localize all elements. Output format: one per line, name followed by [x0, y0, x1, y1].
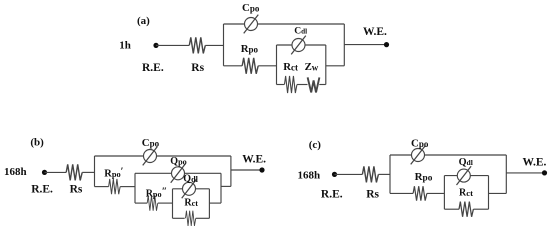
CPE Qpo (b) [171, 164, 186, 183]
wire level-2 left vertical (b) [134, 173, 136, 203]
wire inner top branch (a) [277, 44, 326, 46]
wire to W.E. (a) [344, 44, 386, 46]
wire inner bottom branch (a) [277, 84, 285, 86]
wire [297, 84, 308, 86]
wire level-3 left vertical (b) [172, 189, 174, 219]
capacitor Cdl (a) [291, 36, 306, 55]
wire inner left vertical (c) [443, 176, 445, 210]
resistor Rpo (c) [413, 186, 427, 200]
svg-text:Rpo: Rpo [415, 171, 433, 184]
svg-text:Rpo″: Rpo″ [146, 186, 167, 199]
svg-text:Qpo: Qpo [170, 156, 186, 167]
svg-text:Cpo: Cpo [411, 137, 429, 149]
wire right vertical (a) [343, 24, 345, 66]
wire Qdl branch (c) [444, 175, 488, 177]
svg-text:Cpo: Cpo [142, 137, 160, 149]
resistor Rct (a) [284, 76, 296, 93]
svg-text:Rpo: Rpo [241, 43, 259, 55]
wire left vertical (c) [389, 155, 391, 193]
resistor Rs (b) [66, 164, 82, 180]
svg-text:W.E.: W.E. [523, 156, 547, 168]
wire right vertical (c) [505, 155, 507, 193]
svg-text:Rct: Rct [459, 188, 473, 199]
node W.E. (b) [259, 167, 264, 172]
svg-text:Rs: Rs [70, 183, 83, 195]
CPE Qdl (b) [182, 179, 197, 198]
wire inner right vertical (c) [488, 176, 490, 210]
wire Rpo'' branch (b) [135, 202, 147, 204]
node R.E. (b) [42, 170, 47, 175]
wire top branch (b) [95, 155, 231, 157]
wire top branch (a) [224, 23, 345, 25]
svg-text:R.E.: R.E. [31, 183, 53, 195]
node R.E. (c) [332, 172, 337, 177]
resistor Rct (b) [185, 211, 195, 226]
capacitor Cpo (b) [143, 147, 158, 166]
resistor Rpo'' (b) [147, 196, 158, 211]
wire left vertical (a) [223, 24, 225, 66]
wire level-3 right vertical (b) [208, 189, 210, 219]
wire top branch (c) [390, 154, 506, 156]
svg-text:Qdl: Qdl [459, 157, 473, 168]
resistor Rs (a) [189, 37, 205, 53]
node W.E. (c) [542, 170, 547, 175]
wire Rpo branch (c) [390, 192, 413, 194]
wire to W.E. (b) [231, 169, 262, 171]
wire bottom branch (a) [224, 65, 243, 67]
svg-text:W.E.: W.E. [363, 26, 387, 38]
svg-text:W.E.: W.E. [242, 154, 266, 166]
capacitor Cpo (a) [244, 15, 259, 34]
svg-text:Rpo′: Rpo′ [104, 167, 123, 180]
svg-text:Qdl: Qdl [183, 174, 198, 185]
wire inner left vertical (a) [276, 45, 278, 85]
wire [258, 65, 276, 67]
svg-text:Cpo: Cpo [242, 2, 260, 14]
wire Qdl branch (b) [173, 188, 210, 190]
svg-text:1h: 1h [119, 40, 131, 52]
wire [205, 44, 223, 46]
wire to W.E. (c) [506, 172, 544, 174]
wire Qpo branch (b) [135, 172, 221, 174]
svg-text:Rct: Rct [184, 197, 198, 208]
svg-text:168h: 168h [4, 166, 27, 178]
svg-text:R.E.: R.E. [142, 62, 164, 74]
wire [196, 217, 210, 219]
wire [120, 186, 135, 188]
svg-text:Zw: Zw [305, 61, 319, 73]
wire left vertical (b) [94, 156, 96, 187]
wire [319, 84, 326, 86]
warburg element Zw (a) [308, 77, 320, 92]
svg-text:R.E.: R.E. [321, 189, 343, 201]
wire [158, 202, 173, 204]
svg-text:Rct: Rct [283, 61, 298, 73]
wire right vertical (b) [230, 156, 232, 186]
svg-text:Cdl: Cdl [294, 26, 307, 37]
wire level-3 exit (b) [209, 202, 221, 204]
resistor Rpo (a) [242, 58, 258, 74]
wire [427, 192, 445, 194]
svg-text:Rs: Rs [191, 62, 204, 74]
wire level-2 right vertical (b) [220, 173, 222, 203]
capacitor Cpo (c) [411, 146, 426, 165]
wire inner right vertical (a) [325, 45, 327, 85]
node R.E. (a) [153, 43, 158, 48]
resistor Rct (c) [459, 202, 473, 217]
wire [156, 44, 189, 46]
svg-text:168h: 168h [298, 169, 321, 181]
svg-text:(c): (c) [309, 139, 322, 151]
wire [473, 208, 488, 210]
wire Rct branch (b) [173, 217, 185, 219]
svg-text:(b): (b) [30, 137, 44, 149]
svg-text:(a): (a) [137, 15, 150, 27]
wire [45, 171, 67, 173]
wire Rct branch (c) [444, 208, 459, 210]
wire Rpo' branch (b) [95, 186, 109, 188]
wire [82, 171, 94, 173]
wire [378, 173, 390, 175]
wire inner exit (a) [326, 65, 345, 67]
wire [335, 173, 363, 175]
wire jog (b) [221, 185, 231, 187]
svg-text:Rs: Rs [366, 189, 379, 201]
resistor Rpo' (b) [109, 179, 121, 194]
resistor Rs (c) [362, 166, 378, 182]
CPE Qdl (c) [457, 166, 472, 185]
wire inner exit (c) [489, 192, 507, 194]
node W.E. (a) [384, 42, 389, 47]
